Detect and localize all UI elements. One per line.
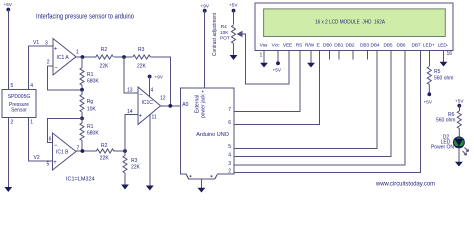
svg-text:22K: 22K [131, 165, 141, 171]
svg-text:VEE: VEE [283, 43, 292, 49]
LCD pin labels [260, 43, 449, 49]
svg-text:R2: R2 [101, 47, 108, 53]
resistor R6 560 ohm [436, 106, 461, 137]
node R2/R3 junction top [122, 55, 126, 59]
wire arduino pin6 to LCD E [234, 51, 319, 125]
svg-text:POT: POT [220, 36, 230, 41]
svg-text:6: 6 [49, 136, 52, 142]
svg-text:R1: R1 [87, 124, 94, 130]
power +5V R5 [424, 92, 433, 104]
svg-text:22K: 22K [100, 156, 110, 162]
svg-text:16 x 2 LCD MODULE JHD 162A: 16 x 2 LCD MODULE JHD 162A [315, 20, 385, 26]
svg-text:680K: 680K [87, 131, 99, 137]
stub LCD DB2 [352, 51, 354, 60]
svg-text:2: 2 [11, 119, 14, 125]
svg-text:12: 12 [160, 96, 166, 102]
wire arduino pin7 to LCD RS [234, 51, 300, 112]
wire +9V to arduino [204, 11, 206, 88]
svg-text:5: 5 [47, 162, 50, 168]
ground LCD R/W [307, 51, 315, 68]
svg-text:22K: 22K [137, 64, 147, 70]
svg-text:6: 6 [228, 120, 231, 126]
resistor R2 bottom [96, 143, 114, 162]
svg-text:560 ohm: 560 ohm [436, 118, 455, 124]
svg-text:V2: V2 [34, 155, 40, 161]
wire R2 to junction bottom [114, 150, 125, 152]
wire arduino pin3 to LCD DB6 [234, 51, 405, 166]
svg-text:Vcc: Vcc [272, 43, 280, 49]
svg-text:A0: A0 [182, 102, 188, 108]
svg-text:R3: R3 [131, 158, 138, 164]
svg-text:IC1 A: IC1 A [57, 55, 70, 61]
svg-text:DB6: DB6 [396, 43, 405, 49]
svg-text:2: 2 [228, 169, 231, 175]
svg-text:2: 2 [47, 60, 50, 66]
stub LCD DB0 [328, 51, 330, 60]
svg-text:RS: RS [296, 43, 302, 49]
wire arduino pin2 to LCD DB7 [234, 51, 420, 173]
svg-text:power jack +: power jack + [201, 90, 207, 118]
svg-text:22K: 22K [100, 64, 110, 70]
svg-text:13: 13 [127, 88, 133, 94]
svg-text:14: 14 [127, 109, 133, 115]
ground IC1C pin11 [146, 115, 154, 191]
arduino UNO box [180, 88, 234, 179]
ground LCD Vss [260, 51, 268, 68]
power +9V IC1C pin4 [148, 75, 164, 80]
svg-text:4: 4 [30, 83, 33, 89]
svg-text:V1: V1 [33, 40, 39, 46]
power +5V LCD Vcc [273, 51, 282, 73]
svg-text:R1: R1 [87, 72, 94, 78]
svg-text:R3: R3 [138, 47, 145, 53]
svg-text:SPD005G: SPD005G [8, 94, 31, 100]
svg-text:DB2: DB2 [345, 43, 354, 49]
power +5V R6 [455, 98, 464, 107]
svg-text:1: 1 [260, 53, 263, 59]
svg-text:+5V: +5V [229, 2, 238, 7]
node IC1A output junction [81, 55, 85, 59]
ground LCD LED- [440, 51, 448, 67]
svg-text:DB1: DB1 [334, 43, 343, 49]
svg-text:3: 3 [45, 41, 48, 47]
svg-text:DB7: DB7 [411, 43, 420, 49]
wire junction to IC1C pin14 [125, 114, 138, 151]
wire arduino pin4 to LCD DB5 [234, 51, 391, 157]
node R2/R3 junction bottom [123, 149, 127, 153]
svg-text:Interfacing pressure sensor to: Interfacing pressure sensor to arduino [36, 13, 134, 20]
svg-text:−: − [139, 93, 143, 99]
svg-text:IC1=LM324: IC1=LM324 [66, 177, 95, 183]
svg-text:+5V: +5V [4, 2, 13, 7]
resistor Rg [80, 90, 96, 119]
wire IC1A output [76, 56, 96, 58]
svg-text:10K: 10K [220, 30, 229, 35]
svg-text:E: E [316, 43, 319, 49]
svg-text:16: 16 [447, 51, 453, 57]
wire arduino pin5 to LCD DB4 [234, 51, 377, 149]
ground pot R4 [230, 55, 238, 60]
wire IC1B output [76, 150, 96, 152]
svg-text:4: 4 [228, 153, 231, 159]
node IC1B output junction [81, 149, 85, 153]
svg-text:Contrast adjustment: Contrast adjustment [212, 12, 218, 56]
svg-text:R5: R5 [434, 69, 441, 75]
power +9V arduino jack [201, 4, 210, 13]
stub LCD DB1 [338, 51, 340, 60]
ground LED D2 [455, 148, 463, 167]
node IC1C output junction [168, 104, 172, 108]
svg-text:LED+: LED+ [423, 43, 435, 49]
resistor R1 top [80, 57, 99, 90]
svg-text:+9V: +9V [155, 75, 164, 80]
svg-text:+: + [54, 47, 58, 53]
svg-text:DB0: DB0 [323, 43, 332, 49]
ground arduino [198, 179, 206, 193]
wire junction to IC1C pin13 [124, 57, 138, 93]
svg-text:DB4: DB4 [370, 43, 379, 49]
resistor R3 top feedback [133, 47, 151, 70]
svg-text:+: + [139, 114, 143, 120]
svg-text:3: 3 [228, 161, 231, 167]
svg-text:+5V: +5V [455, 98, 464, 103]
wire IC1A pin2 feedback loop [48, 66, 83, 90]
stub LCD DB3 [366, 51, 368, 60]
wire LCD LED+ to R5 [428, 51, 430, 67]
svg-text:Rg: Rg [87, 99, 94, 105]
wire IC1C output to A0 [161, 105, 181, 107]
svg-text:DB3: DB3 [360, 43, 369, 49]
wire +9V to IC1C pin4 [149, 77, 151, 98]
LED D2 Power ON [431, 135, 469, 156]
wire R3 to IC1C output node [151, 57, 171, 106]
node junction R1a/Rg [80, 88, 84, 92]
potentiometer R4 10K [220, 2, 242, 55]
svg-text:Power ON: Power ON [431, 145, 454, 151]
svg-text:www.circuitstoday.com: www.circuitstoday.com [375, 180, 435, 187]
svg-text:560 ohm: 560 ohm [434, 76, 453, 82]
wire R2 to R3 [114, 56, 133, 58]
svg-text:R2: R2 [101, 143, 108, 149]
wire sensor pin4 to IC1A pin3 [29, 46, 53, 90]
op-amp IC1C [138, 87, 161, 125]
svg-text:R/W: R/W [305, 43, 315, 49]
svg-text:680K: 680K [87, 79, 99, 85]
svg-text:+: + [53, 160, 57, 166]
svg-text:−: − [54, 66, 58, 72]
LCD module JHD162A [255, 3, 453, 51]
op-amp IC1B [53, 133, 77, 170]
svg-text:+5V: +5V [273, 68, 282, 73]
svg-text:5: 5 [228, 144, 231, 150]
svg-text:5: 5 [11, 83, 14, 89]
resistor R3 bottom [123, 151, 141, 185]
power +5V sensor supply [4, 2, 13, 12]
svg-text:1: 1 [30, 119, 33, 125]
node junction Rg/R1b [80, 117, 84, 121]
ground R3 bottom [121, 185, 129, 190]
ground sensor pin2 [4, 118, 12, 193]
svg-text:10K: 10K [87, 107, 97, 113]
svg-text:11: 11 [152, 115, 157, 121]
svg-text:+9V: +9V [201, 4, 210, 9]
pressure sensor SPD005G [2, 90, 36, 118]
svg-text:IC1C: IC1C [142, 100, 154, 106]
svg-text:Sensor: Sensor [11, 108, 27, 114]
svg-text:Vss: Vss [260, 43, 268, 49]
svg-text:7: 7 [228, 107, 231, 113]
svg-text:+5V: +5V [424, 100, 433, 105]
svg-text:Arduino UNO: Arduino UNO [196, 132, 229, 138]
svg-text:LED-: LED- [438, 43, 449, 49]
resistor R1 bottom [80, 118, 99, 151]
wire IC1B pin6 feedback loop [48, 118, 83, 142]
resistor R2 top [96, 47, 114, 70]
svg-text:1: 1 [76, 50, 79, 56]
resistor R5 560 ohm [427, 67, 453, 95]
svg-text:4: 4 [151, 88, 154, 94]
svg-text:R4: R4 [221, 24, 227, 29]
svg-text:IC1 B: IC1 B [56, 150, 69, 156]
svg-text:−: − [54, 143, 58, 149]
op-amp IC1A [53, 39, 76, 76]
wire LCD VEE to pot wiper [240, 34, 290, 84]
wire sensor pin1 to IC1B pin5 [29, 118, 53, 162]
svg-text:DB5: DB5 [383, 43, 392, 49]
wire +5V to sensor pin 5 [7, 10, 9, 90]
